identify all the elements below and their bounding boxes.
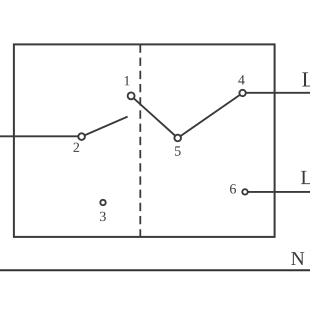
terminal 5 <box>174 135 181 142</box>
terminal 2 <box>78 133 85 140</box>
wire from terminal 4 to L <box>243 92 310 94</box>
switch lever from terminal 5 to terminal 4 <box>178 93 243 138</box>
label L bottom <box>301 171 312 184</box>
terminal 1 <box>128 92 135 99</box>
label 4 <box>238 75 245 84</box>
label 6 <box>230 184 236 193</box>
label 1 <box>125 76 130 85</box>
wire from terminal 6 to L <box>245 191 310 193</box>
terminal 4 <box>239 90 245 96</box>
wire from terminal 1 to terminal 5 <box>131 96 178 138</box>
label L top <box>302 72 313 86</box>
label N <box>291 252 304 265</box>
label 2 <box>73 143 79 152</box>
label 5 <box>175 146 181 155</box>
switch box enclosure <box>14 44 275 237</box>
wire from left edge to terminal 2 <box>0 135 82 137</box>
terminal 3 <box>100 200 105 205</box>
terminal 6 <box>242 189 247 194</box>
neutral wire N <box>0 269 310 271</box>
switch lever from terminal 2 <box>82 117 128 137</box>
label 3 <box>100 212 106 221</box>
dashed divider line <box>139 44 141 237</box>
